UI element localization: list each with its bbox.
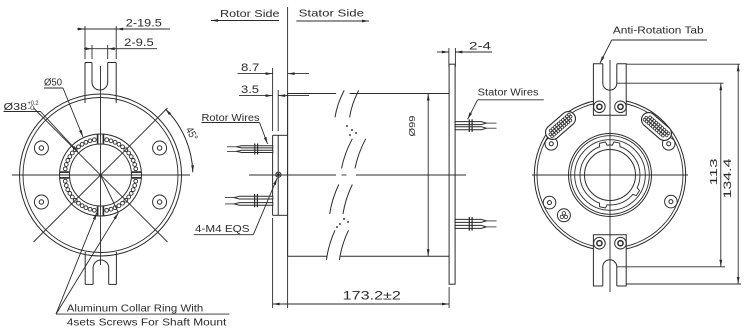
dimension 2-19.5 extension lines	[85, 26, 116, 59]
left view outer flange inner circle	[23, 98, 178, 253]
left view screw hole lower-left	[34, 195, 48, 209]
dimension 2-19.5 line and arrows	[77, 28, 170, 31]
right view top tab plate	[593, 64, 626, 116]
M4 screw dot on collar	[276, 172, 281, 177]
right view wire bundle oval upper-right	[639, 110, 675, 144]
dimension 113 line	[719, 83, 722, 267]
label aluminum collar text line1	[67, 304, 204, 315]
label rotor wires text	[202, 113, 260, 124]
right view outer inner circle	[537, 102, 683, 248]
dimension 2-19.5 text	[126, 17, 162, 29]
label rotor wires leader	[202, 123, 268, 145]
label anti-rotation tab leader	[600, 40, 707, 63]
label anti-rotation tab text	[613, 26, 704, 37]
dimension 173.2 extension lines	[273, 218, 450, 308]
dimension 8.7 line and arrows	[238, 72, 310, 75]
dimension 173.2 line	[273, 303, 450, 306]
label dia38 leader	[4, 112, 79, 153]
body bottom edge	[288, 255, 450, 257]
rotor wires lower bundle	[225, 194, 273, 207]
label dia50 leader	[44, 88, 83, 137]
right view bottom tab slot	[603, 260, 617, 286]
left view bottom tab fork	[85, 252, 116, 284]
svg-text:8.7: 8.7	[241, 62, 259, 74]
right view lock ring outer circles	[569, 134, 652, 217]
left view diagonal centerline 135deg	[34, 108, 168, 242]
label rotor side arrow	[211, 19, 279, 22]
svg-text:2-19.5: 2-19.5	[126, 17, 162, 29]
dimension 45deg text	[183, 125, 200, 143]
dimension 8.7 extension line	[272, 68, 274, 131]
dimension 113 extension lines	[617, 83, 725, 267]
dimension 134.4 line	[737, 64, 740, 284]
right view wire bundle oval upper-left	[543, 109, 579, 143]
svg-text:134.4: 134.4	[722, 159, 734, 199]
svg-text:113: 113	[708, 158, 720, 185]
svg-text:Rotor Side: Rotor Side	[220, 8, 280, 20]
dimension 3.5 extension line	[277, 90, 279, 131]
right view bore circle	[585, 150, 636, 201]
left view screw hole upper-right	[153, 141, 167, 155]
left view collar ring circle dia50	[60, 134, 142, 216]
label aluminum collar underline	[56, 313, 229, 315]
label 4-M4 EQS leader	[194, 178, 277, 235]
dimension 2-4 line and arrows	[437, 51, 492, 54]
label rotor side text	[220, 8, 280, 20]
label aluminum collar second leader	[56, 175, 118, 314]
label dia38 text	[4, 100, 39, 113]
dimension 134.4 text	[722, 159, 734, 199]
dimension dia99 text	[407, 115, 417, 136]
dimension 3.5 line and arrows	[239, 94, 309, 97]
svg-text:Aluminum Collar Ring With: Aluminum Collar Ring With	[67, 304, 204, 315]
right view bottom tab plate	[593, 235, 626, 286]
label 4-M4 EQS text	[195, 224, 250, 235]
left view bore circle dia38	[70, 144, 132, 206]
right view retaining ring circle	[575, 140, 646, 211]
dimension 2-9.5 text	[124, 37, 154, 49]
label stator wires text	[478, 87, 539, 98]
label aluminum collar text line2	[67, 317, 227, 328]
right view horizontal centerline	[532, 174, 688, 176]
left view screw hole upper-left	[34, 141, 48, 155]
right view screw hole upper-right	[662, 138, 675, 151]
dimension 173.2 text	[343, 289, 402, 303]
body left edge	[287, 94, 289, 257]
left view ball ring circles	[63, 138, 137, 212]
label stator side text	[299, 8, 365, 20]
right view top tab screws	[594, 101, 627, 113]
svg-text:Stator Side: Stator Side	[299, 8, 365, 20]
left view screw hole lower-right	[153, 195, 167, 209]
rotor wires upper bundle	[227, 144, 273, 155]
svg-text:3.5: 3.5	[241, 84, 259, 96]
right view top tab slot	[603, 64, 617, 90]
middle view horizontal centerline	[249, 174, 466, 176]
body break lines	[327, 90, 366, 260]
svg-text:Stator Wires: Stator Wires	[478, 87, 539, 98]
rotor collar ring side rect	[273, 135, 288, 215]
dimension 2-4 text	[469, 41, 491, 53]
left view outer flange circle	[20, 94, 182, 256]
stator wires lower bundle	[455, 217, 496, 231]
svg-text:2-9.5: 2-9.5	[124, 37, 154, 49]
body top edge	[288, 93, 450, 95]
label stator side arrow	[296, 20, 369, 23]
rotor-stator divider line	[287, 7, 289, 308]
left view diagonal centerline 45deg	[34, 108, 168, 242]
svg-text:173.2±2: 173.2±2	[343, 289, 402, 303]
label stator wires leader	[468, 100, 544, 120]
left view centerline vertical	[100, 66, 102, 265]
right view vertical centerline	[609, 60, 611, 292]
right view screw hole lower-left	[543, 196, 556, 209]
dimension 45deg arc	[165, 109, 194, 172]
right view screw hole upper-left	[545, 138, 558, 151]
dimension 3.5 text	[241, 84, 259, 96]
label dia50 text	[44, 77, 62, 89]
left view 4x M4 screw blocks	[60, 134, 141, 215]
label aluminum collar leader	[56, 213, 97, 314]
right view screw hole lower-right	[665, 195, 678, 208]
svg-text:4sets Screws For Shaft Mount: 4sets Screws For Shaft Mount	[67, 317, 227, 328]
right view bottom tab screws	[594, 237, 627, 249]
svg-text:Anti-Rotation Tab: Anti-Rotation Tab	[613, 26, 704, 37]
svg-text:Ø50: Ø50	[44, 77, 62, 89]
svg-text:4-M4 EQS: 4-M4 EQS	[195, 224, 250, 235]
dimension 2-9.5 extension lines	[92, 45, 108, 59]
stator flange plate	[449, 64, 455, 284]
right view outer circle	[534, 99, 685, 250]
svg-text:Ø99: Ø99	[407, 115, 417, 136]
dimension 2-4 extension lines	[449, 48, 456, 67]
dimension 8.7 text	[241, 62, 259, 74]
dimension 134.4 extension lines	[626, 64, 741, 284]
right view 3-wire grommet	[557, 209, 570, 222]
left view centerline horizontal	[12, 174, 190, 176]
right view notched ring circle	[580, 142, 640, 208]
left view top tab fork	[85, 63, 116, 104]
stator wires upper bundle	[455, 119, 496, 132]
dimension 2-9.5 line and arrows	[84, 47, 157, 50]
dimension 113 text	[708, 158, 720, 185]
svg-text:2-4: 2-4	[469, 41, 491, 53]
dimension dia99 line	[427, 94, 430, 257]
